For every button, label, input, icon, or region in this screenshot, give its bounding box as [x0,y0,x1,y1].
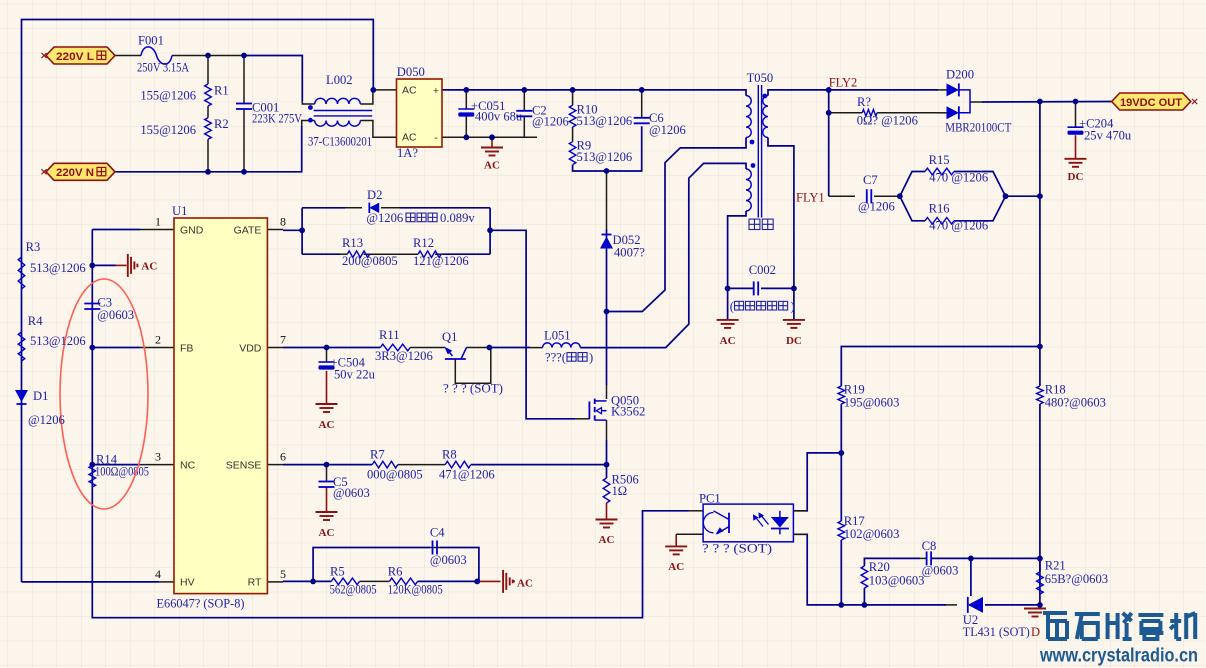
wire PC1 ground stem [675,534,677,546]
junction (208,55.5) [205,53,211,59]
svg-text:50v 22u: 50v 22u [334,368,376,382]
svg-text:R7: R7 [370,448,385,462]
wire HV pin4 [22,581,160,583]
wire D052 branch [606,171,608,230]
wire VDD to R11 Q1 [327,347,381,349]
svg-text:C4: C4 [430,526,445,540]
svg-text:R?: R? [857,95,871,109]
wire AC ground stem (bridge) [491,137,493,147]
svg-text:C002: C002 [749,263,776,277]
svg-text:TL431 (SOT): TL431 (SOT) [963,625,1030,639]
svg-text:7: 7 [280,333,286,347]
svg-text:D1: D1 [33,389,48,403]
svg-text:???(: ???( [545,351,566,365]
junction (899.8,196.2) [897,193,903,199]
junction (1005.5,196.2) [1003,193,1009,199]
svg-text:3: 3 [155,450,161,464]
inductor L002 common-mode choke [315,98,361,104]
ground AC (aux) [717,319,739,321]
svg-text:1A?: 1A? [397,146,418,160]
wire C7 net [829,195,855,197]
capacitor C5 [319,481,335,483]
wire aux bottom to AC ground [728,211,746,320]
svg-text:@1206: @1206 [532,115,569,129]
wire L002 bottom to D050 [360,121,396,138]
svg-text:AC: AC [402,85,417,97]
resistor R17 [838,521,845,540]
svg-text:): ) [589,351,593,365]
svg-text:SENSE: SENSE [226,459,262,471]
svg-text:D: D [1031,625,1040,639]
capacitor C4 [432,541,434,555]
junction (606.5,171) [604,168,610,174]
svg-text:R15: R15 [929,153,950,167]
label 主变 [749,219,760,229]
wire opto cathode / bottom rail [793,534,946,605]
wire U1 pin1 net [92,229,140,231]
wire SENSE pin6 [267,464,283,466]
svg-text:220V L: 220V L [56,51,94,63]
junction (489.4,347.5) [487,345,493,351]
svg-text:@0603: @0603 [922,564,959,578]
wire R9 bottom node [573,126,642,171]
wire R? branch [829,112,863,114]
svg-text:U1: U1 [172,204,187,218]
shunt regulator U2 TL431 [968,597,983,613]
port 220V L (black) [46,47,115,64]
capacitor C001 [236,103,252,105]
svg-text:37-C13600201: 37-C13600201 [308,135,372,149]
wire C4 loop [313,548,430,582]
ground DC (U2) [1024,608,1046,610]
svg-text:T050: T050 [747,71,774,85]
capacitor C504 [319,361,335,363]
junction (492,137.3) [489,134,495,140]
svg-text:103@0603: 103@0603 [869,574,925,588]
svg-text:1: 1 [155,215,161,229]
svg-text:102@0603: 102@0603 [844,527,900,541]
diode D052 [600,237,613,249]
resistor R506 [603,478,610,503]
svg-text:AC: AC [668,561,684,573]
svg-text:0Ω? @1206: 0Ω? @1206 [857,114,918,128]
diode D2 network [301,208,303,254]
svg-text:2: 2 [155,333,161,347]
junction (841.3,604.9) [838,602,844,608]
wire R20 C8 net [863,588,865,605]
svg-text:4007?: 4007? [614,246,645,260]
wire R1 R2 chain [207,56,209,85]
svg-text:RT: RT [248,577,262,589]
svg-text:@1206: @1206 [366,211,403,225]
svg-text:R18: R18 [1045,383,1066,397]
wire C2 branch [523,90,525,111]
resistor R? [862,110,877,117]
junction (841.3,452.9) [838,450,844,456]
resistor R9 [569,142,576,165]
svg-text:AC: AC [720,335,736,347]
svg-text:GND: GND [180,224,204,236]
svg-text:6: 6 [280,450,286,464]
svg-text:DC: DC [1068,171,1084,183]
svg-text:480?@0603: 480?@0603 [1045,396,1106,410]
junction (1039.9,604.9) [1037,602,1043,608]
svg-text:FLY1: FLY1 [796,191,825,205]
svg-text:4: 4 [155,567,161,581]
wire Q050 source to R506 [606,420,608,440]
svg-text:R5: R5 [330,565,345,579]
resistor R20 [861,566,868,588]
ground AC rotated (RT) [502,570,504,593]
svg-text:R17: R17 [844,514,865,528]
watermark crystalradio [1043,613,1067,639]
svg-text:@1206: @1206 [858,200,895,214]
svg-text:470 @1206: 470 @1206 [929,171,988,185]
wire R15 R16 parallel [900,172,925,197]
diode D2 [369,203,379,213]
wire RT pin5 [267,581,283,583]
svg-text:R12: R12 [413,236,434,250]
port 19VDC OUT [1112,93,1191,110]
IC U1 E66047 SOP-8 [174,218,267,594]
junction (864.4,604.9) [862,602,868,608]
resistor R2 [205,118,212,140]
resistor R19 [838,386,845,404]
junction (313.1,581.4) [310,579,316,585]
svg-text:@0603: @0603 [333,486,370,500]
svg-text:155@1206: 155@1206 [140,123,196,137]
svg-text:513@1206: 513@1206 [577,150,633,164]
capacitor C7 [866,189,868,203]
ground AC (C504) [316,403,338,405]
svg-text:L051: L051 [544,329,571,343]
wire C504 branch [326,348,328,363]
svg-text:R20: R20 [869,560,890,574]
svg-text:R8: R8 [442,448,457,462]
resistor R15 [925,168,954,175]
svg-text:220V N: 220V N [56,167,94,179]
svg-text:19VDC OUT: 19VDC OUT [1120,97,1182,109]
svg-text:250V 3.15A: 250V 3.15A [137,61,189,75]
svg-text:VDD: VDD [239,342,262,354]
svg-text:? ? ? (SOT): ? ? ? (SOT) [702,542,772,556]
svg-text:470 @1206: 470 @1206 [929,219,988,233]
resistor R6 [389,578,417,585]
junction (524.3,89.9) [521,87,527,93]
svg-text:AC: AC [319,419,335,431]
svg-text:513@1206: 513@1206 [577,114,633,128]
wire VDD pin7 [267,347,283,349]
svg-text:E66047? (SOP-8): E66047? (SOP-8) [157,597,245,611]
svg-text:1Ω: 1Ω [612,484,628,498]
wire feedback rail [1039,102,1041,387]
wire gate drive [490,230,575,418]
junction (208,171.8) [205,169,211,175]
junction (466.3,89.9) [463,87,469,93]
wire 220V L rail [115,55,141,57]
wire C001 branch [243,56,245,104]
wire U2 ref [970,558,972,596]
wire FLY1 [768,138,794,320]
wire Q1 emitter loop [455,348,491,384]
svg-text:AC: AC [484,160,500,172]
svg-text:AC: AC [517,578,533,590]
svg-text:AC: AC [141,261,157,273]
svg-text:MBR20100CT: MBR20100CT [945,121,1011,135]
wire C5 branch [326,465,328,482]
resistor R8 [445,461,471,468]
svg-text:? ? ? (SOT): ? ? ? (SOT) [443,382,503,396]
svg-text:400v 68u: 400v 68u [475,110,523,124]
resistor R1 [205,84,212,106]
capacitor C8 [926,551,928,565]
svg-text:R4: R4 [28,314,43,328]
node AC+ junction to D050 [360,90,396,104]
junction (92.3,464.6) [89,462,95,468]
wire GATE pin8 [267,229,283,231]
svg-text:513@1206: 513@1206 [30,334,86,348]
svg-text:-: - [434,132,438,144]
resistor R5 [331,578,359,585]
wire C204 branch [1075,102,1077,128]
junction (970.9,558.4) [968,556,974,562]
svg-text:200@0805: 200@0805 [342,254,398,268]
svg-text:D200: D200 [946,68,974,82]
junction (828.7,112.8) [826,110,832,116]
wire opto anode [793,453,841,511]
svg-text:+: + [433,85,439,97]
inductor L051 [543,343,581,348]
svg-text:www.crystalradio.cn: www.crystalradio.cn [1039,645,1198,667]
svg-text:195@0603: 195@0603 [844,396,900,410]
resistor R21 [1037,572,1044,594]
wire HV top border [22,20,374,582]
svg-text:C8: C8 [922,539,937,553]
svg-text:513@1206: 513@1206 [30,261,86,275]
junction (302.1,230.3) [299,227,305,233]
svg-text:D2: D2 [367,188,382,202]
resistor R11 [380,344,410,351]
svg-text:HV: HV [180,577,195,589]
diode D1 [15,390,28,402]
svg-text:5: 5 [280,567,286,581]
svg-text:@0603: @0603 [97,308,134,322]
svg-text:120K@0805: 120K@0805 [388,583,443,597]
svg-text:PC1: PC1 [699,492,721,506]
junction (326.5,464.6) [324,462,330,468]
svg-text:R11: R11 [379,328,400,342]
junction (1039.9,346.5) [1037,344,1043,350]
wire Q050 drain [606,312,608,386]
junction (793.9,288.4) [791,286,797,292]
wire primary bottom to drain node [607,138,747,312]
svg-text:@1206: @1206 [28,413,65,427]
svg-text:0.089v: 0.089v [440,211,475,225]
junction (92.3,265.4) [89,263,95,269]
ground AC (PC1) [665,545,687,547]
svg-text:R3: R3 [26,240,41,254]
svg-text:223K 275V: 223K 275V [252,112,302,126]
resistor R4 [18,332,25,361]
svg-text:R1: R1 [214,84,229,98]
svg-text:562@0805: 562@0805 [330,583,377,597]
port 220V N (white) [46,163,115,180]
wire C6 top [641,90,643,118]
wire 220V N rail [115,126,302,172]
wire R506 to ground [606,503,608,520]
wire C002 net [728,287,754,289]
svg-text:AC: AC [402,132,417,144]
junction (326.5,347.5) [324,345,330,351]
fuse F001 [141,47,172,64]
svg-text:8: 8 [280,215,286,229]
junction (1039.9,558.4) [1037,556,1043,562]
capacitor C204 [1068,126,1084,128]
resistor R16 [925,218,954,225]
junction (1039.9,196.2) [1037,193,1043,199]
wire FB pin2 [92,347,140,349]
junction (828.7,89.9) [826,87,832,93]
ground AC rotated (pin1) [92,264,116,266]
svg-text:NC: NC [180,459,196,471]
capacitor C3 [84,303,100,305]
svg-text:R2: R2 [214,117,229,131]
svg-text:3R3@1206: 3R3@1206 [375,349,433,363]
capacitor C051 [458,108,474,110]
junction (490.1,230.3) [487,227,493,233]
resistor R18 [1037,386,1044,404]
ground DC (FLY1) [783,319,805,321]
wire R19 branch [841,347,1040,387]
svg-text:R16: R16 [929,202,950,216]
wire C051 branch [465,90,467,109]
junction (244,171.8) [241,169,247,175]
resistor R3 [18,257,25,289]
mosfet Q050 K3562 [595,400,607,402]
wire DC+ top rail [442,90,746,96]
junction (606.5,464.6) [604,462,610,468]
svg-text:R19: R19 [844,383,865,397]
junction (1039.9,101.5) [1037,99,1043,105]
svg-text:L002: L002 [326,73,353,87]
ground AC (C5) [316,511,338,513]
svg-text:000@0805: 000@0805 [367,468,423,482]
wire FLY2 [768,90,938,96]
svg-text:65B?@0603: 65B?@0603 [1045,572,1108,586]
resistor R13 [347,251,369,258]
junction (572.6,89.9) [570,87,576,93]
junction (92.3,347.5) [89,345,95,351]
capacitor C2 [516,110,532,112]
bridge rectifier D050 [397,79,443,147]
svg-text:FB: FB [180,342,193,354]
svg-text:DC: DC [786,335,802,347]
junction (1075.5,101.5) [1073,99,1079,105]
resistor R10 [569,105,576,127]
svg-text:100Ω@0805: 100Ω@0805 [95,465,149,479]
wire aux top to L051 [580,163,746,347]
wire AC- rail [442,136,537,138]
svg-text:(: ( [730,300,734,314]
svg-text:AC: AC [599,534,615,546]
svg-text:@1206: @1206 [649,123,686,137]
svg-text:C7: C7 [863,173,878,187]
junction (373.3,89.9) [370,87,376,93]
svg-text:FLY2: FLY2 [829,76,858,90]
junction (477.2,581.4) [474,579,480,585]
ground DC (output) [1065,158,1087,160]
ground AC (bridge) [481,147,503,149]
svg-text:R13: R13 [342,236,363,250]
annotation red ellipse [60,279,148,509]
resistor R12 [418,251,441,258]
resistor R7 [372,461,398,468]
junction (727.6,288.4) [725,286,731,292]
wire 19VDC output [970,101,982,103]
svg-text:GATE: GATE [234,224,262,236]
svg-text:471@1206: 471@1206 [439,468,495,482]
wire R10 R9 chain [572,90,574,105]
capacitor C002 [753,281,755,295]
svg-text:Q1: Q1 [442,330,457,344]
wire NC pin3 [92,464,140,466]
ground AC (R506) [596,519,618,521]
capacitor C6 [634,117,650,119]
svg-text:D050: D050 [397,65,425,79]
junction (244,55.5) [241,53,247,59]
wire R17 branch [840,453,842,521]
svg-text:155@1206: 155@1206 [140,89,196,103]
svg-text:@0603: @0603 [430,553,467,567]
svg-text:F001: F001 [138,34,164,48]
svg-text:): ) [791,300,795,314]
junction (641.7,89.9) [639,87,645,93]
svg-text:K3562: K3562 [611,404,645,418]
svg-text:R6: R6 [388,565,403,579]
resistor R14 [89,466,96,488]
svg-text:AC: AC [319,527,335,539]
svg-text:R21: R21 [1045,559,1066,573]
junction (606.5,311.5) [604,309,610,315]
optocoupler PC1 [703,504,793,542]
svg-text:25v 470u: 25v 470u [1084,129,1132,143]
svg-text:121@1206: 121@1206 [413,254,469,268]
junction (466.3,137.3) [463,134,469,140]
